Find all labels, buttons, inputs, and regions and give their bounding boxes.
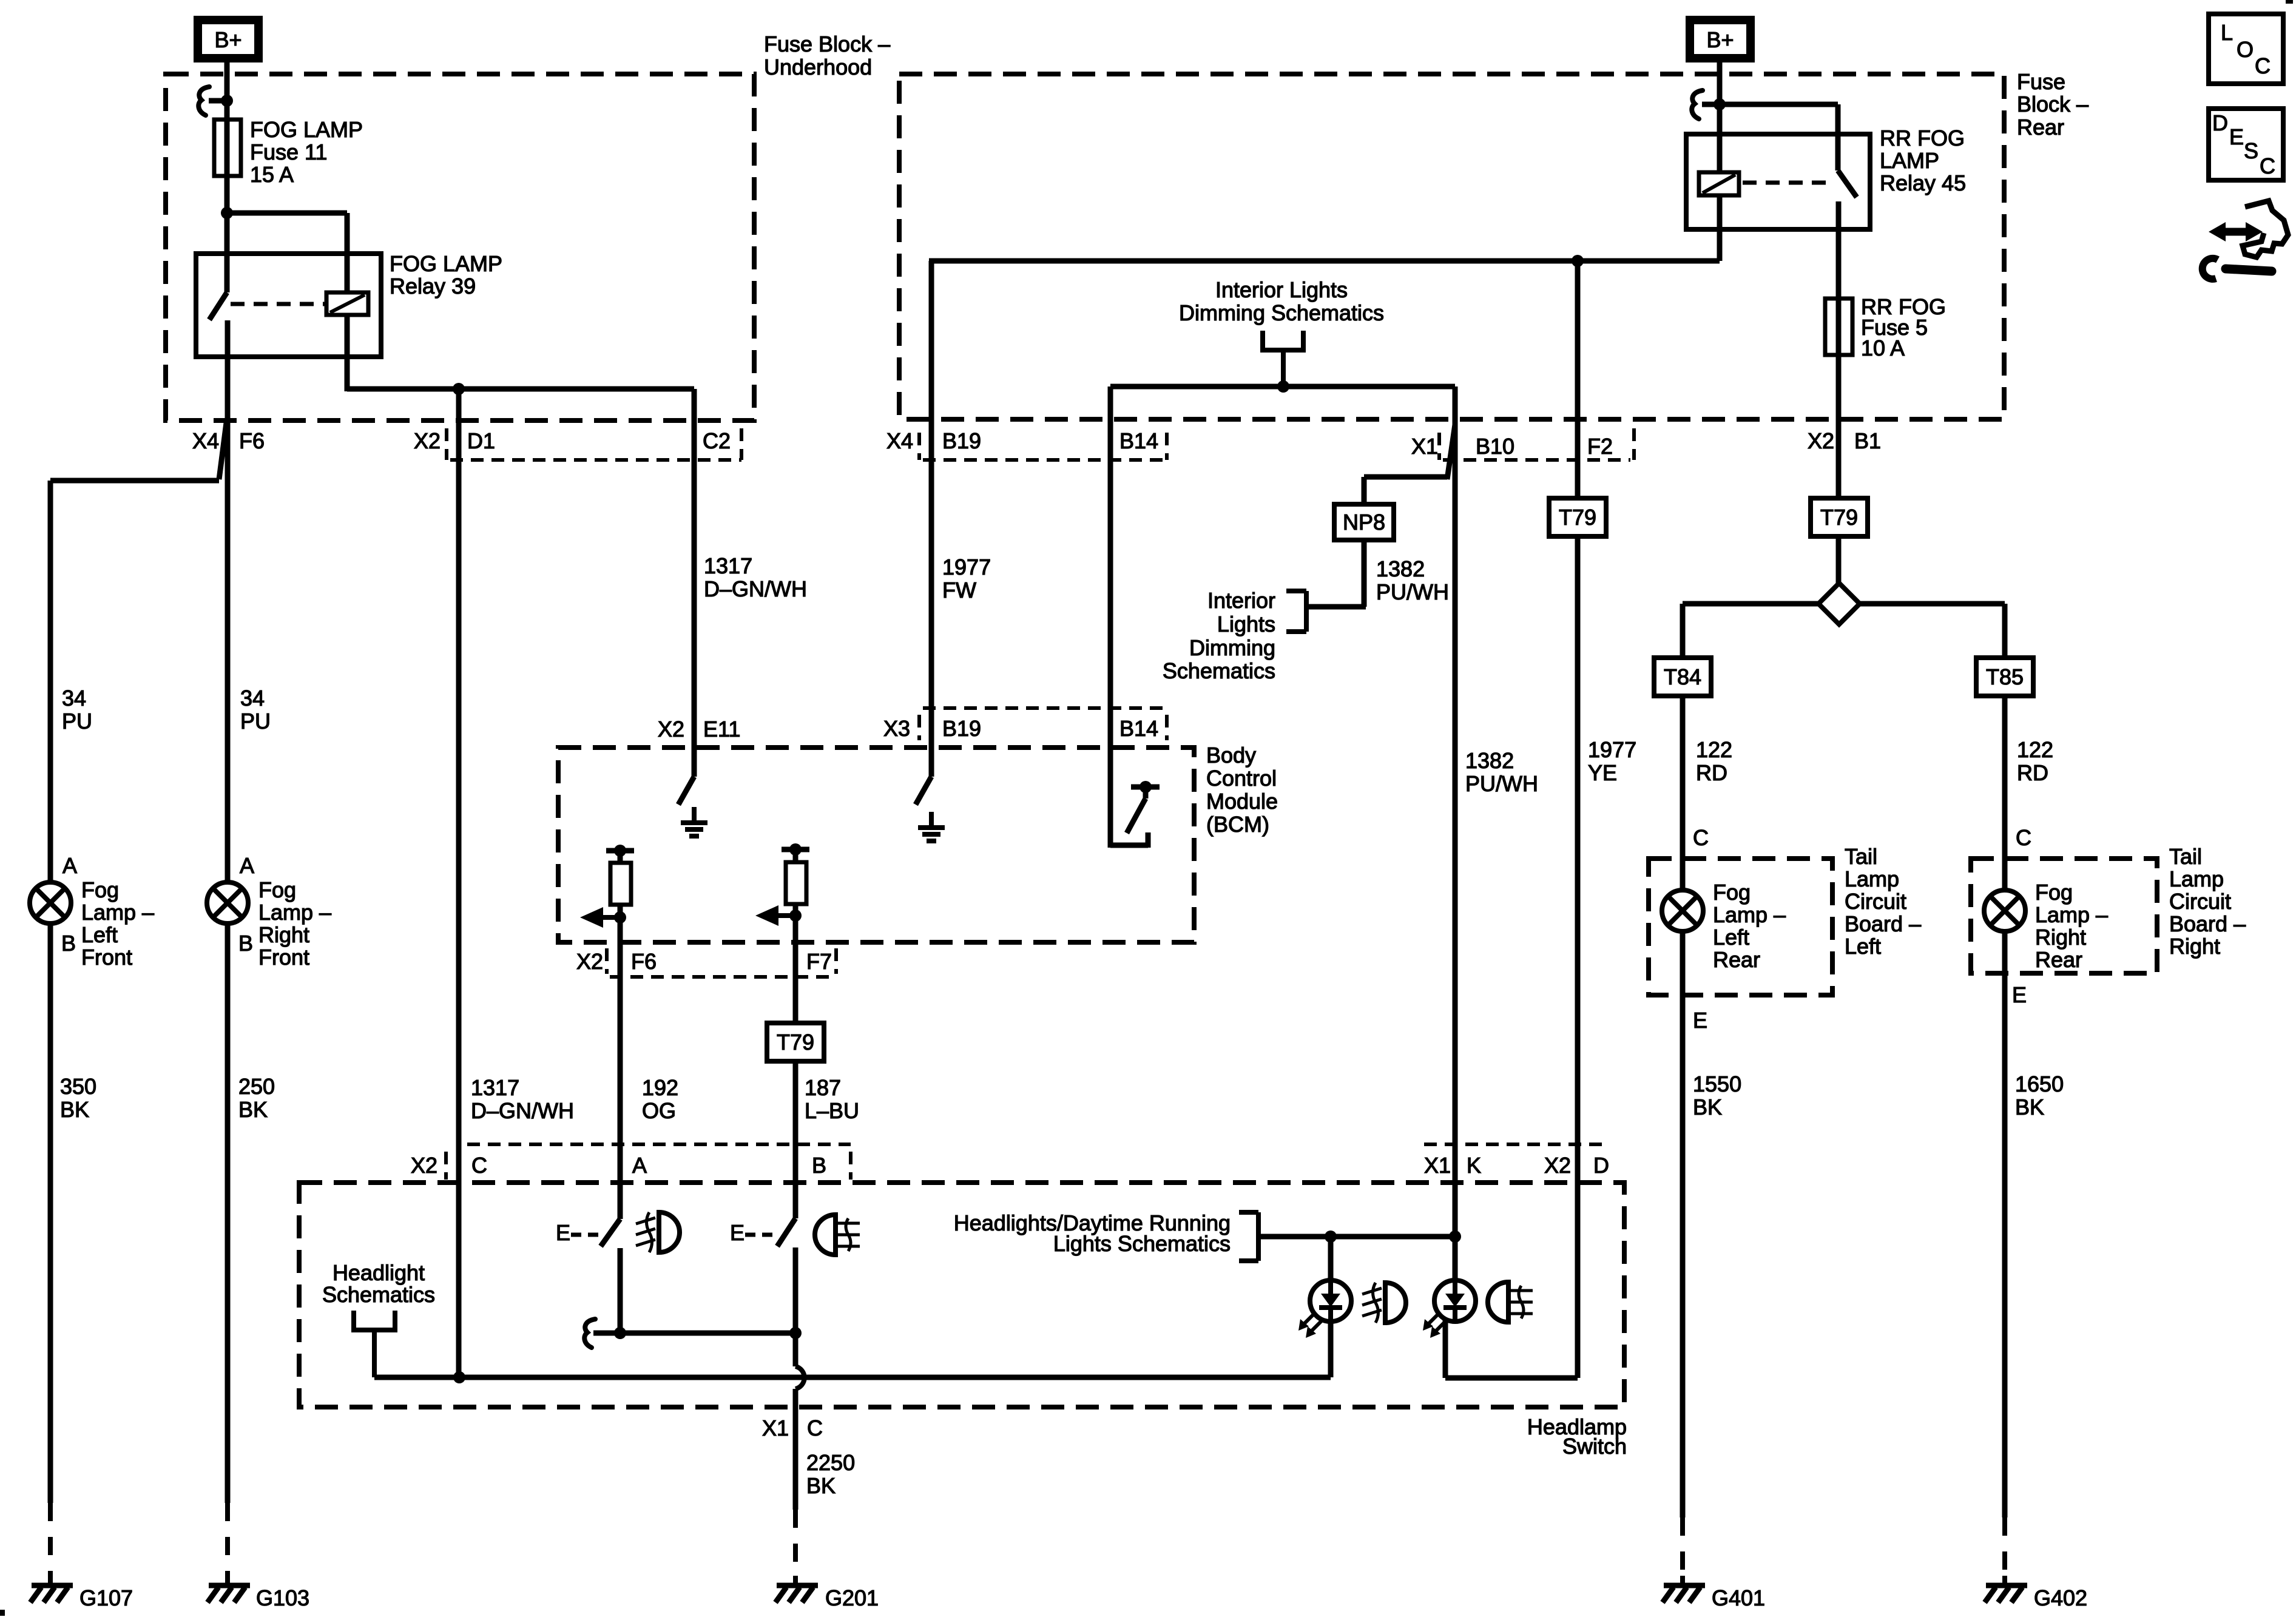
wire B10 down to headlamp switch K [1453,387,1458,1237]
svg-text:Circuit: Circuit [2169,889,2231,914]
svg-text:Tail: Tail [1845,844,1877,869]
option box NP8 [1334,504,1394,540]
svg-text:B10: B10 [1476,434,1514,459]
headlights DRL bracket [1256,1212,1261,1261]
wire dashed to G103 [225,1503,230,1578]
lamp Fog Lamp - Right Front [207,882,248,923]
in-line connector T85 [1976,658,2033,696]
svg-text:BK: BK [1693,1095,1722,1119]
wire dashed to G107 [48,1503,53,1578]
svg-text:X2: X2 [414,428,441,453]
icon box DESC [2209,109,2283,180]
svg-text:B+: B+ [214,27,241,52]
rear block top rail to B19 [929,258,1720,264]
junction LED1 tap [1325,1230,1337,1243]
BCM node bar for F7 driver [782,847,809,852]
BCM B19 ground [929,812,934,828]
svg-text:Lamp –: Lamp – [2035,902,2108,927]
wire F6 splice diagonal [219,423,226,479]
svg-text:E11: E11 [703,717,740,741]
svg-text:X2: X2 [1808,428,1834,453]
wire switch output bus [593,1331,795,1336]
wire dashed to G201 [793,1510,798,1578]
svg-text:1382: 1382 [1465,748,1514,773]
svg-text:B19: B19 [942,428,981,453]
body control module enclosure (dashed) [558,748,1194,942]
svg-text:G201: G201 [825,1585,879,1610]
svg-text:Switch: Switch [1562,1434,1627,1459]
svg-text:L–BU: L–BU [805,1098,859,1123]
fuse FOG LAMP Fuse 11 15A [214,120,241,176]
svg-text:Fuse 11: Fuse 11 [250,140,327,164]
svg-text:Fuse: Fuse [2017,69,2065,94]
svg-text:Headlight: Headlight [333,1260,425,1285]
in-line connector T79 (187 circuit) [767,1023,824,1061]
svg-text:E: E [2012,982,2027,1007]
svg-text:B: B [238,931,253,956]
junction at fuse 11 feed [221,95,233,107]
svg-text:Lights: Lights [1217,612,1275,636]
wire fuse output to relay 39 coil [227,211,347,216]
svg-text:RR FOG: RR FOG [1880,126,1965,150]
fuse RR FOG Fuse 5 10A [1825,299,1852,355]
wire B14 into BCM [1108,387,1113,848]
wire left rear lamp to G401 [1680,931,1686,1517]
wire 122 RD T85 to right rear fog lamp [2002,696,2008,890]
svg-text:X1: X1 [1424,1153,1451,1178]
svg-text:Lamp: Lamp [1845,866,1899,891]
BCM E11 switch arm [678,777,694,805]
svg-text:1650: 1650 [2015,1072,2064,1096]
svg-text:Relay 39: Relay 39 [390,274,476,299]
svg-text:T79: T79 [1559,505,1596,530]
wire DRL bracket to K [1258,1234,1455,1240]
svg-text:15 A: 15 A [250,162,294,187]
ground G107 [48,1576,53,1584]
relay 39 coil [326,292,368,315]
svg-text:A: A [632,1153,647,1178]
BCM bottom pin row X2 F6 F7 (dotted) [610,975,836,979]
svg-text:B: B [812,1153,826,1178]
relay 45 dashed actuation link [1743,181,1828,185]
svg-text:X1: X1 [1411,434,1438,459]
svg-text:Interior: Interior [1207,588,1275,613]
resistor BCM fog lamp driver (F6) [618,851,623,863]
svg-text:G402: G402 [2034,1585,2087,1610]
power feed B+ (underhood) [194,16,263,62]
svg-text:Rear: Rear [2017,115,2064,140]
wire LED1 to return bus [1328,1322,1334,1377]
wire 187 L-BU BCM F7 to T79 [793,916,799,1023]
svg-text:Tail: Tail [2169,844,2202,869]
junction interior lights tap [1277,380,1289,393]
wire 1977 FW B19 to BCM [929,261,934,777]
svg-text:1977: 1977 [1588,737,1636,762]
wire C2 to BCM E11 [692,389,697,777]
wire relay 39 coil to D1 rail [345,315,350,391]
svg-text:C: C [2016,825,2031,850]
svg-text:D: D [1593,1153,1609,1178]
arrow feedback (F6) [599,915,620,920]
svg-text:A: A [62,853,77,878]
svg-text:K: K [1467,1153,1481,1178]
junction headlight schematics / pin C [453,1371,465,1383]
svg-text:Fuse Block –: Fuse Block – [764,32,890,56]
svg-text:PU/WH: PU/WH [1465,771,1538,796]
svg-text:Control: Control [1206,766,1277,791]
BCM node bar for F6 driver [606,848,634,854]
relay 39 dashed actuation link [231,302,326,306]
wire dashed to G401 [1680,1517,1685,1578]
svg-text:NP8: NP8 [1343,510,1385,535]
svg-text:BK: BK [60,1097,89,1122]
junction front fog output [614,1327,626,1339]
svg-text:187: 187 [805,1075,841,1100]
svg-text:Left: Left [81,922,118,947]
wire dashed to G402 [2002,1517,2007,1578]
junction arrow F6 [618,905,623,917]
svg-text:C: C [2255,53,2271,78]
svg-text:C2: C2 [703,428,731,453]
connector pin row X4 B19..B14 (dotted) [923,458,1163,462]
wire 192 OG BCM F6 to headlamp switch A [618,917,623,1219]
power feed B+ (rear) [1686,16,1755,62]
svg-text:B1: B1 [1854,428,1881,453]
svg-text:RD: RD [1696,760,1727,785]
relay RR FOG LAMP Relay 45 box [1686,134,1870,229]
svg-text:Relay 45: Relay 45 [1880,170,1966,195]
splice hook at fuse 11 feed [198,87,209,115]
lamp Fog Lamp - Left Rear [1662,890,1703,931]
wire rear fog switch output [793,1247,799,1333]
svg-text:PU/WH: PU/WH [1376,579,1449,604]
headlamp switch pin row K D (dotted) [1424,1143,1607,1146]
inner rail B14-B10 [1110,384,1455,390]
wire diamond to T84 [1683,601,1818,607]
svg-text:G401: G401 [1712,1585,1765,1610]
svg-text:RD: RD [2017,760,2048,785]
svg-text:E: E [1693,1008,1707,1033]
svg-text:Left: Left [1845,934,1881,959]
svg-text:Fog: Fog [1713,880,1751,905]
svg-text:350: 350 [60,1074,96,1099]
splice hook front output [584,1319,595,1348]
svg-text:1382: 1382 [1376,556,1425,581]
svg-text:2250: 2250 [806,1450,855,1475]
svg-text:Right: Right [2035,925,2086,950]
svg-text:X2: X2 [658,717,684,741]
front fog icon at LED [1362,1288,1382,1294]
svg-text:Circuit: Circuit [1845,889,1906,914]
relay 45 switch arm [1838,170,1857,197]
lamp Fog Lamp - Right Rear [1984,890,2025,931]
svg-text:BK: BK [2015,1095,2044,1119]
LED indicator front fog [1328,1237,1334,1280]
svg-text:L: L [2221,20,2233,45]
relay 45 coil [1699,172,1739,195]
BCM B14 corner and contact [1110,843,1148,848]
wire B+ to fog lamp relay switch contact [225,62,230,292]
tail lamp circuit board right enclosure (dashed) [1971,859,2157,973]
relay 39 switch arm [209,292,227,320]
svg-text:1317: 1317 [704,553,752,578]
svg-text:Board –: Board – [1845,911,1921,936]
interior lights bracket (right) [1304,591,1309,632]
svg-text:B14: B14 [1119,716,1158,741]
BCM B14 switch arm [1127,798,1146,833]
svg-text:E: E [556,1220,570,1245]
svg-text:T85: T85 [1986,664,2024,689]
svg-text:X4: X4 [192,428,219,453]
svg-text:Fog: Fog [81,877,119,902]
svg-text:34: 34 [240,686,265,711]
svg-text:X2: X2 [1544,1153,1571,1178]
svg-text:F7: F7 [806,949,832,974]
wire 34 PU to left front fog lamp [50,478,219,484]
svg-text:C: C [807,1416,823,1440]
svg-text:Body: Body [1206,743,1256,768]
svg-text:10 A: 10 A [1861,336,1905,360]
svg-text:E: E [2229,124,2244,149]
icon box LOC [2209,14,2283,84]
junction switch output bus [789,1327,802,1339]
svg-text:G103: G103 [256,1585,309,1610]
svg-text:Lamp –: Lamp – [258,900,331,925]
NP8 jumper to option splice [1364,474,1447,480]
ground G401 [1680,1576,1685,1584]
svg-text:F6: F6 [239,428,265,453]
headlamp switch pin row C A B (dotted) [467,1143,851,1146]
page corner mark top right [2286,0,2293,4]
icon part outline [2243,201,2288,257]
svg-text:250: 250 [238,1074,275,1099]
svg-text:PU: PU [240,709,271,734]
ground G103 [225,1576,230,1584]
connector pin row X2 D1..C2 (dotted) [450,458,741,462]
NP8 jumper diagonal [1447,425,1455,479]
svg-text:C: C [2260,154,2275,178]
in-line connector T84 [1654,658,1711,696]
icon part-locator arrow [2223,228,2249,236]
svg-text:Schematics: Schematics [1163,658,1275,683]
in-line connector T79 (rear body) [1811,498,1868,536]
svg-text:Front: Front [81,945,132,970]
junction K / DRL [1449,1230,1461,1243]
resistor BCM fog lamp driver (F7) [793,849,799,862]
headlight schematics bracket [351,1311,356,1332]
svg-text:Schematics: Schematics [322,1282,435,1307]
svg-text:Right: Right [258,922,309,947]
svg-text:Lamp –: Lamp – [81,900,154,925]
headlamp switch enclosure (dashed) [299,1183,1624,1407]
junction arrow F7 [793,904,799,916]
svg-text:Board –: Board – [2169,911,2246,936]
wire pin D up to connector [1575,1183,1581,1378]
svg-text:D1: D1 [467,428,495,453]
wire relay 45 switch to fuse 5 [1836,201,1842,355]
page corner mark bottom left [0,1610,5,1616]
svg-text:34: 34 [62,686,86,711]
svg-text:D–GN/WH: D–GN/WH [471,1098,574,1123]
svg-text:Dimming: Dimming [1189,635,1275,660]
interior lights dimming stem and bracket (top) [1260,331,1265,353]
wire to X1-C with hop over return bus [793,1333,799,1366]
svg-text:F2: F2 [1587,434,1613,459]
svg-text:S: S [2244,138,2258,163]
svg-text:122: 122 [1696,737,1732,762]
svg-text:(BCM): (BCM) [1206,812,1269,837]
svg-text:X2: X2 [411,1153,437,1178]
BCM B14 switch contact [1140,781,1152,793]
BCM pin row X3 B19..B14 (dotted) [923,706,1163,710]
wire relay 45 coil to top rail [1717,195,1723,261]
svg-text:Left: Left [1713,925,1749,950]
wire right rear lamp to G402 [2002,931,2008,1517]
svg-text:192: 192 [642,1075,678,1100]
svg-text:T79: T79 [777,1030,814,1055]
svg-text:Fog: Fog [2035,880,2073,905]
svg-text:LAMP: LAMP [1880,148,1939,173]
BCM B19 switch arm [916,777,931,805]
svg-text:X2: X2 [576,949,603,974]
wire relay 45 switch feed [1720,102,1838,107]
svg-text:Interior Lights: Interior Lights [1215,277,1348,302]
svg-text:Lamp: Lamp [2169,866,2224,891]
svg-text:C: C [471,1153,487,1178]
NP8 to interior lights bracket [1362,540,1367,607]
svg-text:D–GN/WH: D–GN/WH [704,576,807,601]
arrow feedback (F7) [775,913,795,918]
svg-text:Block –: Block – [2017,92,2088,116]
splice hook rear feed [1692,90,1703,119]
junction F2 tap on top rail [1572,255,1584,267]
wire diamond to T85 [1860,601,2005,607]
svg-text:OG: OG [642,1098,676,1123]
wire 122 RD T84 to left rear fog lamp [1680,696,1686,890]
svg-text:F6: F6 [631,949,657,974]
svg-text:X1: X1 [762,1416,789,1440]
svg-text:B+: B+ [1706,27,1734,52]
svg-text:X3: X3 [883,716,910,741]
svg-text:BK: BK [806,1473,836,1498]
connector pin row X1 B10..F2 (dotted) [1443,458,1630,462]
wire 1977 YE T79 to headlamp switch D [1575,536,1581,1183]
svg-text:1317: 1317 [471,1075,519,1100]
splice diamond [1818,583,1860,624]
svg-text:O: O [2237,37,2254,62]
svg-text:Fog: Fog [258,877,296,902]
svg-text:Lights Schematics: Lights Schematics [1053,1231,1231,1256]
svg-text:122: 122 [2017,737,2053,762]
svg-text:PU: PU [62,709,92,734]
wire return bus to LED1 [374,1375,1331,1380]
svg-text:D: D [2212,110,2228,135]
svg-text:Right: Right [2169,934,2220,959]
svg-text:X4: X4 [886,428,913,453]
svg-text:Front: Front [258,945,309,970]
svg-text:1977: 1977 [942,555,991,579]
svg-text:Underhood: Underhood [764,55,872,79]
svg-text:FOG LAMP: FOG LAMP [250,117,363,142]
svg-text:Rear: Rear [2035,947,2082,972]
svg-text:B19: B19 [942,716,981,741]
svg-text:Lamp –: Lamp – [1713,902,1786,927]
front fog icon at switch [636,1218,655,1224]
wire LED2 to pin D [1443,1318,1448,1378]
rear fog icon at LED [1488,1282,1508,1322]
wire fuse 5 to diamond [1836,355,1842,584]
relay FOG LAMP Relay 39 box [196,254,381,357]
svg-text:1550: 1550 [1693,1072,1741,1096]
fuse block underhood enclosure (dashed) [166,74,754,420]
ground G402 [2002,1576,2007,1584]
lamp Fog Lamp - Left Front [30,882,71,923]
wire T79 to headlamp switch B [793,1061,799,1218]
svg-text:C: C [1693,825,1709,850]
svg-text:FOG LAMP: FOG LAMP [390,251,502,276]
svg-text:BK: BK [238,1097,268,1122]
junction D1 tap [453,383,465,395]
svg-text:T79: T79 [1820,505,1858,530]
svg-text:B: B [61,931,76,956]
junction relay coil tap [221,207,233,219]
in-line connector T79 (1977 circuit) [1575,261,1581,498]
wire F6 to right front fog lamp [225,320,231,882]
LED indicator rear fog [1453,1237,1458,1280]
icon wrench [2203,258,2218,279]
wire 1317 D-GN/WH from D1 to headlamp switch pin C [456,389,462,1377]
ground G201 [793,1576,798,1584]
svg-text:FW: FW [942,578,976,603]
svg-text:A: A [240,853,254,878]
tail lamp circuit board left enclosure (dashed) [1649,859,1832,995]
svg-text:Dimming Schematics: Dimming Schematics [1179,300,1384,325]
rear fog icon at switch [815,1215,836,1255]
wire front fog switch output [618,1248,623,1333]
junction rear feed [1714,98,1726,110]
svg-text:Module: Module [1206,789,1278,814]
wire B+ rear to relay 45 coil [1717,62,1723,172]
svg-text:Rear: Rear [1713,947,1760,972]
BCM E11 ground [692,807,697,823]
svg-text:YE: YE [1588,760,1617,785]
svg-text:E: E [730,1220,745,1245]
svg-text:G107: G107 [79,1585,133,1610]
fuse block rear enclosure (dashed) [899,74,2004,419]
svg-text:B14: B14 [1119,428,1158,453]
svg-text:T84: T84 [1664,664,1701,689]
